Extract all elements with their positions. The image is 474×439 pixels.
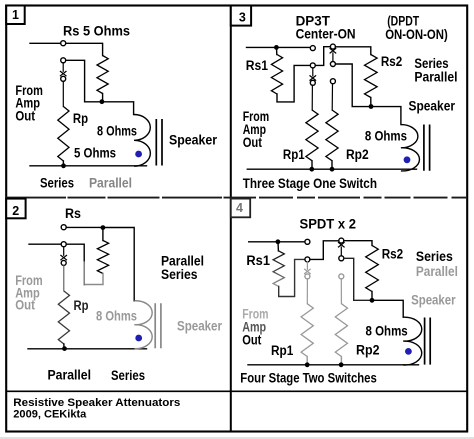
speaker coil (Q3) [401, 125, 420, 171]
svg-text:Rs2: Rs2 [381, 54, 402, 69]
switch2 arm arrow up (Q4) [338, 242, 345, 247]
svg-text:2009, CEKikta: 2009, CEKikta [13, 409, 87, 421]
svg-text:Rp1: Rp1 [271, 343, 294, 358]
junction node Rs2/speaker (Q4) [370, 298, 375, 303]
crossover jog wire C to B (Q4) [310, 241, 339, 260]
wire from amp input (Q1) [30, 42, 61, 44]
switch arm with arrow (Q1) [62, 63, 64, 72]
resistor Rs (Q1) [97, 56, 108, 94]
wire Rp1 bottom faded (Q4) [306, 357, 308, 365]
junction node input/Rs (Q2) [101, 225, 106, 230]
junction node input/Rs1 (Q3) [274, 45, 279, 50]
wire contact F to Rp2 (Q3) [331, 84, 333, 110]
svg-text:Out: Out [15, 109, 35, 124]
wire Rs2 bottom to node (Q3) [370, 98, 372, 105]
svg-text:Out: Out [243, 135, 263, 150]
switch2 pole contact D (Q4) [339, 256, 344, 261]
junction Rp2/bottom rail (Q3) [330, 167, 335, 172]
wire node to speaker top (Q3) [373, 107, 401, 125]
quadrant number box 1 [6, 6, 25, 25]
speaker terminal blue dot (Q2) [135, 335, 142, 342]
junction node Rs2/speaker (Q3) [369, 104, 374, 109]
horizontal divider between top and bottom quadrants [6, 197, 230, 199]
switch1 contact C (Q4) [305, 257, 310, 262]
svg-text:Out: Out [15, 298, 35, 313]
svg-text:Four Stage Two Switches: Four Stage Two Switches [240, 371, 376, 386]
speaker coil faded (Q2) [134, 301, 152, 349]
speaker coil (Q1) [134, 115, 150, 167]
svg-text:3: 3 [239, 11, 246, 25]
svg-text:Rs 5 Ohms: Rs 5 Ohms [63, 23, 130, 38]
wire pole to Rp (Q1) [62, 81, 64, 106]
resistor Rs1 (Q4) [273, 251, 284, 287]
wire node down to Rs (Q2) [102, 230, 104, 241]
svg-text:SPDT x 2: SPDT x 2 [300, 217, 357, 232]
switch contact F (Q3) [330, 79, 335, 84]
wire node to speaker top (Q4) [374, 300, 403, 317]
svg-text:5 Ohms: 5 Ohms [74, 145, 116, 160]
wire Rp1 bottom (Q3) [311, 161, 313, 170]
bottom return wire (Q2) [28, 348, 147, 350]
wire from amp input (Q2) [29, 243, 61, 245]
junction Rp1/bottom rail (Q4) [305, 362, 310, 367]
speaker core lines (Q4) [425, 318, 431, 365]
switch throw contact middle (Q2) [61, 242, 66, 247]
resistor Rs1 (Q3) [271, 55, 282, 95]
resistor Rp2 faded (Q4) [335, 304, 347, 357]
svg-text:Speaker: Speaker [411, 293, 456, 308]
wire node to switch1 (Q4) [280, 241, 305, 243]
svg-text:Speaker: Speaker [177, 318, 223, 333]
wire Rp2 bottom faded (Q4) [340, 357, 342, 365]
wire node to speaker top (Q2) [105, 228, 134, 301]
wire Rp bottom (Q1) [62, 161, 64, 166]
faint bottom strip [0, 437, 474, 439]
switch throw contact upper (Q2) [61, 225, 66, 230]
resistor Rp1 faded (Q4) [301, 304, 313, 357]
junction Rp2/bottom rail (Q4) [339, 362, 344, 367]
wire Rs bottom to node (Q1) [102, 94, 104, 102]
switch throw contact middle (Q1) [61, 58, 66, 63]
wire node down to Rs1 (Q4) [277, 244, 279, 251]
switch throw contact upper (Q1) [61, 41, 66, 46]
svg-text:8 Ohms: 8 Ohms [366, 324, 408, 339]
resistor Rp2 (Q3) [326, 110, 338, 161]
svg-text:Parallel: Parallel [89, 176, 132, 191]
switch arm arrow up col2 (Q3) [330, 48, 337, 53]
switch contact B (Q3) [330, 44, 335, 49]
wire upper throw to node (Q2) [66, 226, 100, 228]
svg-text:Rs1: Rs1 [246, 58, 269, 73]
svg-text:Series: Series [111, 368, 145, 383]
svg-text:Center-ON: Center-ON [296, 27, 356, 42]
svg-text:Parallel: Parallel [414, 69, 457, 84]
svg-text:Rp1: Rp1 [283, 147, 305, 162]
junction node Rp/bottom rail (Q2) [62, 346, 67, 351]
svg-text:ON-ON-ON): ON-ON-ON) [385, 27, 448, 42]
speaker terminal blue dot (Q1) [135, 151, 142, 158]
switch arm arrow down col1 (Q3) [312, 68, 314, 76]
svg-text:Rs: Rs [65, 206, 81, 221]
switch1 pole contact E faded (Q4) [305, 274, 310, 279]
wire pole to Rp (Q2) [63, 265, 65, 291]
bottom return wire (Q4) [248, 364, 419, 366]
svg-text:Three Stage One Switch: Three Stage One Switch [243, 176, 377, 191]
svg-text:Rp: Rp [74, 298, 89, 313]
wire node to switch (Q3) [279, 46, 311, 48]
wire throw-to-Rs (Q1) [66, 43, 103, 55]
wire pole E to Rp1 (Q3) [311, 85, 313, 110]
svg-text:Rs2: Rs2 [382, 247, 404, 262]
svg-text:Parallel: Parallel [48, 368, 92, 383]
svg-text:Parallel: Parallel [416, 264, 458, 279]
wire D to speaker node (Q4) [344, 258, 370, 300]
wire node to speaker top (Q1) [104, 102, 133, 115]
wire from amp input (Q3) [247, 46, 275, 48]
switch pole1 contact A (Q3) [310, 46, 315, 51]
svg-text:Rp2: Rp2 [356, 343, 380, 358]
svg-text:Series: Series [40, 176, 74, 191]
switch1 arm arrow down faded (Q4) [306, 262, 308, 269]
wire B to Rs2 top (Q4) [344, 241, 372, 246]
svg-text:Out: Out [242, 333, 262, 348]
svg-text:Rp: Rp [73, 111, 88, 126]
resistor Rs2 (Q3) [365, 55, 378, 98]
svg-text:8 Ohms: 8 Ohms [96, 309, 137, 324]
switch pole contact D (Q3) [330, 62, 335, 67]
resistor Rp (Q2) [58, 291, 69, 344]
resistor Rs2 (Q4) [366, 245, 379, 291]
wire Rs1 bottom hook to contact C (Q4) [279, 259, 305, 296]
caption box top line [6, 390, 467, 392]
wire middle throw to node (Q1) [66, 60, 100, 102]
svg-text:Series: Series [416, 249, 453, 264]
wire middle throw down leg (Q2) [66, 244, 84, 262]
speaker core lines faded (Q2) [155, 303, 161, 348]
switch pole contact (Q2) [61, 260, 66, 265]
wire Rs1 bottom hook to middle throw (Q3) [277, 65, 310, 102]
crossover jog wire C to B (Q3) [315, 47, 330, 66]
speaker terminal blue dot (Q3) [404, 156, 411, 163]
bottom return wire (Q3) [247, 168, 416, 170]
speaker terminal blue dot (Q4) [405, 348, 412, 355]
switch2 contact B (Q4) [339, 238, 344, 243]
speaker coil (Q4) [403, 317, 422, 365]
switch pole contact (Q1) [61, 76, 66, 81]
junction node input/Rs1 (Q4) [276, 239, 281, 244]
svg-text:8 Ohms: 8 Ohms [97, 123, 137, 138]
resistor Rp (Q1) [58, 107, 69, 162]
junction Rp1/bottom rail (Q3) [309, 167, 314, 172]
vertical divider between left and right quadrants [230, 6, 232, 432]
svg-text:1: 1 [12, 8, 19, 22]
wire Rs2 bottom to node (Q4) [371, 292, 373, 299]
svg-text:Speaker: Speaker [169, 133, 218, 148]
svg-text:4: 4 [236, 201, 243, 215]
switch arm with arrow (Q2) [63, 247, 65, 256]
wire contact F to Rp2 faded (Q4) [340, 279, 342, 304]
wire Rp bottom (Q2) [63, 344, 65, 349]
bottom return wire (Q1) [30, 165, 147, 167]
quadrant number box 4 [231, 199, 250, 218]
svg-text:Resistive Speaker Attenuators: Resistive Speaker Attenuators [13, 397, 180, 409]
svg-text:Rp2: Rp2 [346, 147, 369, 162]
speaker core lines (Q1) [156, 119, 162, 166]
svg-text:Series: Series [161, 267, 198, 282]
wire pole E to Rp1 faded (Q4) [306, 279, 308, 304]
resistor Rs vertical (Q2) [97, 241, 108, 274]
wire B to Rs2 top (Q3) [336, 47, 371, 55]
wire Rs bottom jog faded (Q2) [84, 274, 103, 285]
wire D to speaker node (Q3) [336, 64, 369, 107]
junction node Rp/bottom rail (Q1) [61, 163, 66, 168]
junction node Rs/speaker (Q1) [100, 99, 105, 104]
wire node down to Rs1 (Q3) [276, 50, 278, 55]
resistor Rp1 (Q3) [306, 110, 318, 161]
switch pole contact E (Q3) [310, 80, 315, 85]
wire Rp2 bottom (Q3) [331, 161, 333, 170]
speaker core lines (Q3) [424, 125, 430, 171]
svg-text:Speaker: Speaker [409, 98, 456, 113]
wire from amp input (Q4) [249, 241, 276, 243]
quadrant number box 2 [6, 199, 25, 219]
switch2 contact F faded (Q4) [339, 274, 344, 279]
switch contact C (Q3) [310, 63, 315, 68]
switch1 throw contact A (Q4) [305, 239, 310, 244]
quadrant number box 3 [231, 6, 251, 26]
svg-text:Rs1: Rs1 [246, 253, 270, 268]
svg-text:8 Ohms: 8 Ohms [365, 128, 407, 143]
svg-text:2: 2 [12, 204, 19, 218]
